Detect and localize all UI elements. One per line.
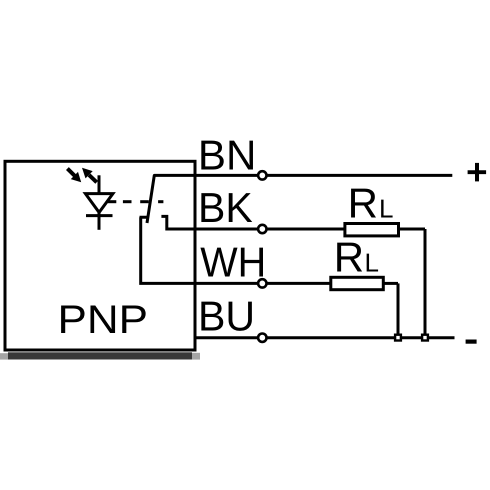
switch NC contact to WH [140,217,196,283]
wire drop BK rail [424,229,427,338]
terminal circle BK [258,225,266,233]
shadow bar [8,352,192,359]
dashed actuation link [108,200,117,203]
switch S1 blade + BN feed [147,175,195,223]
wire BN [195,174,452,177]
plus terminal [468,163,487,182]
wire RL1 to drop [399,228,426,231]
svg-text:R: R [348,180,378,227]
svg-text:BK: BK [198,184,253,231]
wire RL2 to drop [383,282,398,285]
svg-text:R: R [334,234,364,281]
svg-text:PNP: PNP [58,298,149,342]
svg-text:L: L [365,248,379,278]
junction square BK/BU [422,335,428,341]
svg-text:BU: BU [198,293,255,340]
light arrow 1 [67,169,81,183]
resistor RL2 [331,277,384,289]
svg-text:WH: WH [200,239,266,286]
terminal circle BU [258,334,266,342]
wire drop WH rail [397,283,400,337]
junction square WH/BU [395,335,401,341]
minus terminal [466,340,477,344]
wire WH [195,282,331,285]
resistor RL1 [345,224,399,236]
wire BK [195,228,345,231]
wire BU [195,336,455,339]
photodiode D1 [85,175,113,230]
sensor body box [5,161,195,350]
shadow right cap [192,353,200,360]
terminal circle BN [258,171,266,179]
terminal circle WH [258,279,266,287]
light arrow 2 [82,168,97,183]
svg-text:BN: BN [198,132,257,179]
svg-text:L: L [379,194,393,224]
shadow left cap [0,353,8,359]
switch NO contact to BK [161,216,195,229]
